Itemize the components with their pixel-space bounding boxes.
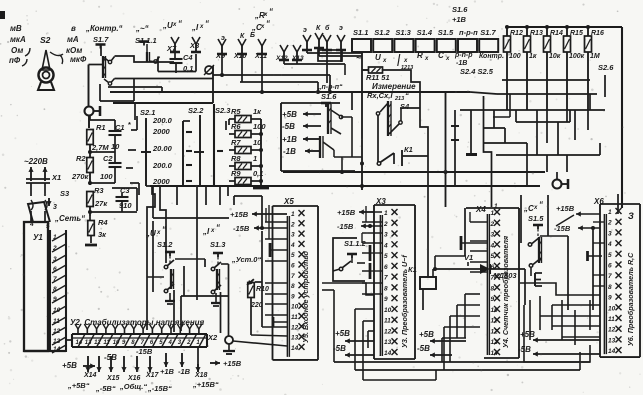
svg-text:„Сеть“: „Сеть“ <box>54 214 85 223</box>
svg-text:мкФ: мкФ <box>70 55 87 64</box>
svg-text:U: U <box>375 53 381 62</box>
svg-text:S2.4 S2.5: S2.4 S2.5 <box>460 67 494 76</box>
svg-text:100: 100 <box>509 53 521 60</box>
svg-text:Контр.: Контр. <box>479 53 504 60</box>
svg-text:9: 9 <box>53 296 57 303</box>
svg-text:“: “ <box>405 91 409 100</box>
svg-text:200.0: 200.0 <box>152 161 173 170</box>
svg-text:10: 10 <box>113 340 120 346</box>
svg-text:+5В: +5В <box>335 329 350 338</box>
svg-text:Х12: Х12 <box>275 55 288 62</box>
svg-text:100к: 100к <box>569 53 585 60</box>
svg-text:б: б <box>325 24 330 32</box>
svg-text:5: 5 <box>384 253 388 260</box>
svg-text:Х10: Х10 <box>233 53 247 60</box>
svg-text:З: З <box>628 211 634 221</box>
svg-text:4: 4 <box>290 242 295 249</box>
svg-text:3: 3 <box>291 232 295 239</box>
svg-text:1: 1 <box>494 203 498 210</box>
svg-text:э: э <box>303 27 307 34</box>
svg-text:11: 11 <box>384 318 391 325</box>
svg-text:R11 51: R11 51 <box>366 73 390 82</box>
svg-text:R3: R3 <box>94 186 104 195</box>
svg-text:2: 2 <box>490 221 495 228</box>
svg-text:S2.3: S2.3 <box>215 106 231 115</box>
svg-text:„п-р-п“: „п-р-п“ <box>317 84 343 91</box>
svg-text:„Общ.“: „Общ.“ <box>119 382 147 391</box>
svg-text:x: x <box>424 56 429 62</box>
svg-text:1к: 1к <box>253 107 262 116</box>
svg-text:910: 910 <box>119 201 132 210</box>
svg-text:13: 13 <box>85 340 92 346</box>
svg-text:-1В: -1В <box>283 147 296 156</box>
svg-text:S1.5: S1.5 <box>438 28 454 37</box>
svg-text:0,1: 0,1 <box>183 64 193 73</box>
svg-text:+5В: +5В <box>520 330 535 339</box>
svg-text:9: 9 <box>491 296 495 303</box>
svg-text:3: 3 <box>384 232 388 239</box>
svg-text:+5В: +5В <box>419 330 434 339</box>
svg-text:S3: S3 <box>60 189 70 198</box>
svg-text:R1: R1 <box>96 123 106 132</box>
svg-text:7: 7 <box>291 273 295 280</box>
svg-text:Х16: Х16 <box>127 375 141 382</box>
svg-text:x: x <box>382 58 387 64</box>
svg-text:1: 1 <box>608 209 612 216</box>
svg-text:кОм: кОм <box>66 46 82 55</box>
svg-text:2000: 2000 <box>152 127 171 136</box>
svg-text:1: 1 <box>53 234 57 241</box>
svg-text:У5. Входное устройство: У5. Входное устройство <box>301 250 310 342</box>
svg-text:-15В: -15В <box>337 222 354 231</box>
svg-text:27к: 27к <box>94 199 108 208</box>
svg-text:Х15: Х15 <box>106 375 120 382</box>
svg-text:7: 7 <box>384 275 388 282</box>
svg-text:12: 12 <box>53 328 61 335</box>
svg-text:2,7М: 2,7М <box>91 143 109 152</box>
svg-text:5: 5 <box>291 252 295 259</box>
svg-text:У6. Преобразователь R,С: У6. Преобразователь R,С <box>626 252 635 346</box>
svg-text:S1.7: S1.7 <box>480 28 496 37</box>
svg-text:-5В: -5В <box>333 344 346 353</box>
svg-text:S2: S2 <box>40 35 51 45</box>
svg-text:10: 10 <box>291 304 299 311</box>
svg-text:9: 9 <box>291 293 295 300</box>
svg-text:“: “ <box>269 7 273 16</box>
svg-text:S2.6: S2.6 <box>598 63 614 72</box>
svg-text:Х4: Х4 <box>475 205 486 214</box>
svg-text:R16: R16 <box>591 30 604 37</box>
svg-text:1: 1 <box>384 210 388 217</box>
svg-text:п-р-п: п-р-п <box>459 28 478 37</box>
svg-text:Х8: Х8 <box>189 41 200 50</box>
svg-text:12: 12 <box>608 327 616 334</box>
svg-text:в: в <box>71 24 76 33</box>
svg-text:S1.7: S1.7 <box>93 35 109 44</box>
svg-text:э: э <box>339 25 343 32</box>
svg-text:9: 9 <box>608 295 612 302</box>
svg-text:“: “ <box>266 19 270 28</box>
svg-text:6: 6 <box>53 266 57 273</box>
svg-text:мА: мА <box>67 35 79 44</box>
svg-text:14: 14 <box>608 348 616 355</box>
svg-text:пФ: пФ <box>9 56 21 65</box>
svg-text:3: 3 <box>53 204 57 211</box>
svg-text:Х7: Х7 <box>166 44 177 53</box>
svg-text:К1: К1 <box>404 145 413 154</box>
svg-text:R14: R14 <box>550 30 563 37</box>
svg-text:11: 11 <box>608 316 615 323</box>
svg-text:+15В: +15В <box>556 204 575 213</box>
svg-text:-5В: -5В <box>417 344 430 353</box>
svg-text:12: 12 <box>94 340 101 346</box>
svg-text:9: 9 <box>384 296 388 303</box>
svg-text:2000: 2000 <box>152 177 171 186</box>
svg-text:4: 4 <box>490 242 495 249</box>
svg-text:“: “ <box>178 19 182 28</box>
svg-text:R2: R2 <box>76 154 86 163</box>
svg-text:+1В: +1В <box>282 135 297 144</box>
svg-text:100: 100 <box>100 172 113 181</box>
svg-text:-1В: -1В <box>456 60 467 67</box>
svg-text:8: 8 <box>608 284 612 291</box>
svg-text:1: 1 <box>491 210 495 217</box>
svg-text:2: 2 <box>52 245 57 252</box>
svg-text:13: 13 <box>384 339 392 346</box>
svg-text:Х17: Х17 <box>145 372 160 379</box>
svg-text:5: 5 <box>491 253 495 260</box>
svg-text:x: x <box>263 12 268 18</box>
svg-text:1: 1 <box>291 211 295 218</box>
svg-text:-5В: -5В <box>518 345 531 354</box>
svg-text:S1.3: S1.3 <box>210 240 226 249</box>
svg-text:8: 8 <box>53 286 57 293</box>
svg-text:3: 3 <box>491 232 495 239</box>
svg-text:С2: С2 <box>103 154 113 163</box>
svg-text:4: 4 <box>168 340 173 346</box>
svg-text:-1В: -1В <box>178 367 191 376</box>
svg-text:У4. Счетчик преобразователя: У4. Счетчик преобразователя <box>501 235 510 348</box>
svg-text:14: 14 <box>76 340 83 346</box>
svg-text:x: x <box>260 24 265 30</box>
svg-text:S1.4: S1.4 <box>417 28 433 37</box>
svg-text:S1.1: S1.1 <box>353 28 368 37</box>
svg-text:1к: 1к <box>529 53 537 60</box>
svg-text:Х5: Х5 <box>283 197 294 206</box>
svg-text:-5В: -5В <box>104 353 117 362</box>
svg-text:x: x <box>533 205 538 211</box>
svg-text:x: x <box>199 24 204 30</box>
svg-text:Х18: Х18 <box>194 372 208 379</box>
svg-text:C: C <box>438 51 444 60</box>
svg-text:2: 2 <box>290 221 295 228</box>
svg-text:„I: „I <box>202 227 210 236</box>
svg-text:100: 100 <box>253 122 266 131</box>
svg-text:Х14: Х14 <box>83 372 97 379</box>
svg-text:„U: „U <box>162 21 173 30</box>
svg-text:x: x <box>172 22 177 28</box>
svg-text:p-n-p: p-n-p <box>454 52 473 59</box>
svg-text:3к: 3к <box>98 230 107 239</box>
svg-text:1М: 1М <box>590 53 600 60</box>
svg-text:R12: R12 <box>510 30 523 37</box>
svg-text:S1.5: S1.5 <box>528 214 544 223</box>
svg-text:270к: 270к <box>71 172 90 181</box>
svg-text:7: 7 <box>53 276 57 283</box>
svg-text:14: 14 <box>291 345 299 352</box>
svg-text:„-15В“: „-15В“ <box>147 384 172 393</box>
svg-text:У1: У1 <box>33 233 43 242</box>
svg-text:Х6: Х6 <box>593 197 604 206</box>
svg-text:Х11: Х11 <box>254 53 267 60</box>
svg-text:3: 3 <box>53 256 57 263</box>
svg-text:S1.6: S1.6 <box>452 5 468 14</box>
svg-text:8: 8 <box>384 285 388 292</box>
svg-text:Х3: Х3 <box>375 197 386 206</box>
svg-text:*: * <box>128 120 131 129</box>
svg-text:14: 14 <box>384 350 392 357</box>
svg-text:11: 11 <box>53 318 60 325</box>
svg-text:3: 3 <box>608 230 612 237</box>
svg-text:13: 13 <box>608 337 616 344</box>
svg-text:„Контр.“: „Контр.“ <box>85 24 123 33</box>
svg-text:S1.3: S1.3 <box>395 28 411 37</box>
svg-text:12: 12 <box>384 328 392 335</box>
svg-text:S1.6: S1.6 <box>321 92 337 101</box>
svg-text:R4: R4 <box>98 218 108 227</box>
svg-text:“: “ <box>205 19 209 28</box>
svg-text:13: 13 <box>53 338 61 345</box>
svg-text:R: R <box>417 51 423 60</box>
svg-text:10: 10 <box>384 307 392 314</box>
svg-text:-15В: -15В <box>233 224 250 233</box>
svg-text:+1В: +1В <box>160 367 175 376</box>
svg-text:“: “ <box>216 223 220 232</box>
svg-text:10: 10 <box>53 307 61 314</box>
svg-text:“: “ <box>539 200 543 209</box>
svg-text:Х2: Х2 <box>207 333 218 342</box>
svg-text:7: 7 <box>608 273 612 280</box>
svg-text:8: 8 <box>491 285 495 292</box>
svg-text:У2. Стабилизаторы напряжения: У2. Стабилизаторы напряжения <box>70 318 205 327</box>
svg-text:К: К <box>316 25 321 32</box>
svg-text:11: 11 <box>103 340 110 346</box>
svg-text:13: 13 <box>291 335 299 342</box>
svg-text:К: К <box>240 33 245 40</box>
svg-text:+15В: +15В <box>223 359 242 368</box>
svg-text:+1В: +1В <box>452 15 467 24</box>
svg-text:5: 5 <box>608 252 612 259</box>
svg-text:x: x <box>445 56 450 62</box>
svg-text:Х9: Х9 <box>215 51 226 60</box>
svg-text:R10: R10 <box>256 286 269 293</box>
svg-text:4: 4 <box>607 241 612 248</box>
svg-text:мВ: мВ <box>10 24 22 33</box>
svg-text:2: 2 <box>383 221 388 228</box>
svg-text:6: 6 <box>608 263 612 270</box>
svg-text:„I: „I <box>191 23 199 32</box>
svg-text:-5В: -5В <box>282 122 295 131</box>
svg-text:8: 8 <box>291 283 295 290</box>
svg-text:10: 10 <box>608 305 616 312</box>
svg-text:+15В: +15В <box>337 208 356 217</box>
svg-text:2: 2 <box>607 220 612 227</box>
svg-text:6: 6 <box>291 263 295 270</box>
svg-text:КД503: КД503 <box>494 271 517 280</box>
svg-text:R13: R13 <box>530 30 543 37</box>
svg-text:x: x <box>403 58 408 64</box>
svg-text:10к: 10к <box>549 53 561 60</box>
svg-text:мкА: мкА <box>10 35 26 44</box>
svg-text:С4: С4 <box>183 53 193 62</box>
svg-text:~220В: ~220В <box>24 157 48 166</box>
svg-text:-15В: -15В <box>136 347 153 356</box>
svg-text:К1: К1 <box>408 265 417 274</box>
svg-text:11: 11 <box>291 314 298 321</box>
svg-text:„Уст.0“: „Уст.0“ <box>231 255 261 264</box>
svg-text:„-5В“: „-5В“ <box>95 384 116 393</box>
svg-text:„+5В“: „+5В“ <box>67 381 90 390</box>
svg-text:Б: Б <box>250 32 255 39</box>
svg-text:S1.2: S1.2 <box>157 240 173 249</box>
svg-text:x: x <box>210 228 215 234</box>
svg-text:10: 10 <box>111 142 120 151</box>
svg-text:4: 4 <box>383 242 388 249</box>
svg-text:R15: R15 <box>570 30 583 37</box>
svg-text:+5В: +5В <box>62 361 77 370</box>
svg-text:Х1: Х1 <box>51 173 61 182</box>
svg-text:„~“: „~“ <box>135 24 149 33</box>
svg-text:220: 220 <box>250 302 263 309</box>
svg-text:6: 6 <box>384 264 388 271</box>
svg-text:+15В: +15В <box>230 210 249 219</box>
svg-text:S1.2: S1.2 <box>374 28 390 37</box>
svg-text:Rх,Сх,I: Rх,Сх,I <box>367 91 393 100</box>
svg-text:1: 1 <box>253 154 257 163</box>
svg-text:20.00: 20.00 <box>152 144 173 153</box>
svg-text:Ом: Ом <box>11 46 23 55</box>
